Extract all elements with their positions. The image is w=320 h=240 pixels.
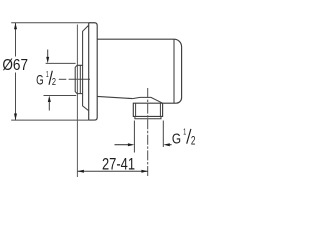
body end cap outer silhouette <box>174 39 182 103</box>
flange cone back edge <box>83 25 89 110</box>
arrow left onto outlet thread right line <box>169 144 172 146</box>
wire: 27-41 dimension line <box>77 170 147 172</box>
flange escutcheon outline <box>89 23 98 120</box>
wire: leader centerline of wall thread <box>59 78 67 80</box>
wire: outlet centerline (dashed) <box>147 88 149 177</box>
wire: outlet thread OD left extension line <box>133 121 135 153</box>
svg-text:Ø67: Ø67 <box>2 57 28 74</box>
outlet nut outline <box>133 103 162 116</box>
body underside right of boss <box>163 102 177 104</box>
nut left facet line <box>135 103 137 116</box>
wire: Ø67 dimension line upper segment <box>15 23 17 57</box>
wire: Ø67 bottom extension line <box>11 119 89 121</box>
arrow up onto thread bottom line <box>48 101 50 111</box>
wire: G1/2 wall-thread OD bottom line <box>44 95 77 97</box>
wall thread stub <box>75 65 82 93</box>
outlet boss silhouette <box>132 97 162 103</box>
svg-text:27-41: 27-41 <box>102 155 135 173</box>
nut right facet line <box>159 103 161 116</box>
svg-text:2: 2 <box>191 134 196 148</box>
wire: G1/2 wall-thread OD top line <box>46 62 76 64</box>
wall thread stub root line <box>79 65 81 93</box>
svg-text:1: 1 <box>183 128 187 137</box>
wire: Ø67 top extension line <box>11 22 89 24</box>
body top line <box>97 38 174 40</box>
arrow left at wall line <box>77 170 84 173</box>
svg-text:G: G <box>172 131 181 148</box>
arrow right onto outlet thread left line <box>115 144 130 146</box>
arrow up at Ø67 top <box>14 23 17 30</box>
arrow right at outlet centerline <box>141 170 148 173</box>
wire: outlet thread OD right extension line <box>162 121 164 148</box>
svg-text:1: 1 <box>46 70 49 79</box>
outlet tube end lip <box>135 116 161 118</box>
wire: Ø67 dimension line lower segment <box>15 73 17 121</box>
arrow down at Ø67 bottom <box>14 114 17 121</box>
svg-text:G: G <box>36 72 44 88</box>
body bottom line <box>97 96 132 98</box>
svg-text:2: 2 <box>52 77 56 88</box>
wire: wall plane line <box>76 25 78 178</box>
flange rim line B <box>88 23 90 120</box>
body end cap inner line <box>173 39 175 103</box>
arrow down onto thread top line <box>47 50 49 59</box>
